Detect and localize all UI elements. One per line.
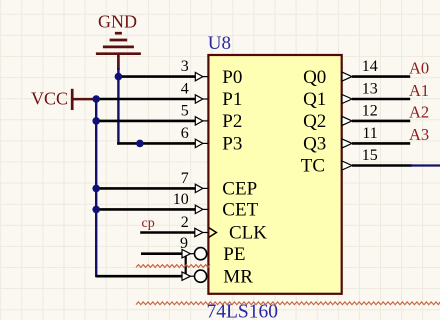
- pin 15 TC: [301, 147, 378, 177]
- wire CET net (pin 10): [96, 208, 195, 211]
- junction VCC rail / CET: [92, 206, 100, 214]
- svg-text:A3: A3: [409, 125, 429, 144]
- junction VCC rail / P2: [92, 117, 100, 125]
- pin 11 Q3: [303, 125, 410, 155]
- svg-text:CLK: CLK: [229, 223, 267, 244]
- IC U8 74LS160 body: [208, 55, 341, 294]
- pin 10 CET: [173, 191, 259, 221]
- svg-text:Q0: Q0: [303, 67, 326, 88]
- svg-text:P1: P1: [222, 89, 242, 110]
- svg-text:P2: P2: [222, 111, 242, 132]
- svg-text:Q1: Q1: [303, 89, 326, 110]
- junction GND branch / P0: [115, 73, 123, 81]
- svg-text:12: 12: [362, 102, 378, 119]
- wire PE stub (pin 9): [141, 252, 182, 255]
- svg-text:Q3: Q3: [303, 134, 326, 155]
- junction on P3 wire: [136, 140, 144, 148]
- wire P1 net (pin 4): [96, 98, 195, 101]
- svg-text:4: 4: [181, 80, 189, 97]
- pin 12 Q2: [303, 102, 410, 132]
- ERC marker zigzag under PE/MR: [136, 265, 210, 268]
- pin 2 CLK with clock chevron: [181, 214, 267, 244]
- svg-text:15: 15: [362, 147, 378, 164]
- svg-text:P3: P3: [222, 134, 242, 155]
- svg-text:P0: P0: [222, 67, 242, 88]
- svg-text:11: 11: [362, 125, 377, 142]
- svg-text:PE: PE: [223, 244, 245, 265]
- pin 13 Q1: [303, 80, 410, 110]
- pin 5 P2: [181, 102, 243, 132]
- wire MR net (pin 1): [96, 275, 182, 278]
- wire P2 net (pin 5): [96, 120, 195, 123]
- svg-text:9: 9: [180, 235, 188, 252]
- svg-text:VCC: VCC: [31, 88, 68, 108]
- pin 3 P0: [181, 58, 243, 88]
- svg-text:U8: U8: [208, 33, 231, 54]
- power port VCC: [31, 88, 95, 110]
- svg-text:6: 6: [181, 125, 189, 142]
- wire VCC vertical rail: [95, 98, 97, 277]
- svg-text:MR: MR: [223, 266, 253, 287]
- svg-text:CEP: CEP: [222, 179, 257, 200]
- junction VCC rail / CEP: [92, 185, 100, 193]
- svg-text:A1: A1: [409, 81, 429, 100]
- svg-text:5: 5: [181, 102, 189, 119]
- pin 4 P1: [181, 80, 243, 110]
- svg-text:Q2: Q2: [303, 111, 326, 132]
- ground GND power symbol: [96, 11, 141, 70]
- ERC marker zigzag below IC: [136, 302, 440, 305]
- wire GND branch vertical (to P0 and P3): [117, 68, 119, 145]
- pin 14 Q0: [303, 58, 410, 88]
- wire P0 net (pin 3): [118, 75, 195, 78]
- pin 1 MR (active low bubble): [182, 266, 253, 287]
- svg-text:14: 14: [362, 58, 378, 75]
- pin 7 CEP: [181, 170, 257, 200]
- svg-text:CET: CET: [222, 200, 258, 221]
- svg-text:2: 2: [181, 214, 189, 231]
- svg-text:GND: GND: [98, 11, 137, 31]
- svg-text:A2: A2: [409, 103, 429, 122]
- pin 6 P3: [181, 125, 243, 155]
- wire TC net to sheet edge: [410, 164, 440, 166]
- wire PE to MR vertical link: [185, 256, 187, 276]
- wire P3 net (pin 6): [117, 142, 195, 145]
- svg-text:cp: cp: [142, 216, 155, 231]
- svg-text:10: 10: [173, 191, 189, 208]
- wire CEP net (pin 7): [96, 187, 195, 190]
- wire CLK stub (pin 2): [140, 231, 195, 234]
- svg-text:TC: TC: [301, 156, 325, 177]
- svg-text:13: 13: [362, 80, 378, 97]
- svg-text:7: 7: [181, 170, 189, 187]
- svg-text:A0: A0: [409, 58, 429, 77]
- wire TC output extension: [352, 164, 412, 167]
- svg-text:3: 3: [181, 58, 189, 75]
- junction VCC rail / P1: [92, 95, 100, 103]
- pin 9 PE (active low bubble): [180, 235, 245, 265]
